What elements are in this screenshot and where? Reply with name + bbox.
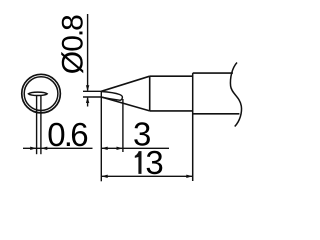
arrow Ø0.8 up <box>86 97 89 103</box>
tip top silhouette <box>101 76 149 91</box>
arrow Ø0.8 down <box>86 85 89 91</box>
cylinder2 bottom <box>193 113 240 115</box>
dimension line Ø0.8 vertical <box>87 14 89 91</box>
cylinder2 top <box>193 72 233 74</box>
arrow 0.6 right <box>41 147 47 150</box>
extension line Ø0.8 top <box>83 90 102 92</box>
arrow 13 left <box>101 175 107 178</box>
break curve <box>230 63 241 127</box>
cylinder1 top <box>150 75 193 77</box>
blade edge + extension line down to 13 dim <box>100 91 102 181</box>
front view chisel edge lens <box>28 92 47 95</box>
tip bottom silhouette <box>101 97 149 111</box>
front view inner circle <box>24 77 58 111</box>
svg-text:3: 3 <box>145 144 163 181</box>
slot edge / extension line left <box>36 96 38 155</box>
svg-text:Ø: Ø <box>56 51 89 74</box>
dimension line 0.6 <box>23 147 93 149</box>
slot edge / extension line right <box>40 96 42 155</box>
arrow 3 right <box>117 147 123 150</box>
extension line 3 right <box>122 99 124 152</box>
svg-text:6: 6 <box>70 116 88 153</box>
label 13: custom 1 glyph <box>135 151 142 174</box>
arrow 0.6 left <box>30 147 36 150</box>
dimension line 3 <box>101 147 169 149</box>
extension line Ø0.8 bottom <box>83 96 102 98</box>
front view outer circle <box>22 74 61 113</box>
dimension line 13 <box>101 175 192 177</box>
arrow 13 right <box>186 175 192 178</box>
svg-text:8: 8 <box>56 14 89 31</box>
cylinder1 bottom <box>150 110 193 112</box>
step + extension line <box>192 73 194 181</box>
ground face ellipse (side) <box>101 92 122 101</box>
cone-cylinder junction <box>149 76 151 111</box>
arrow 3 left <box>101 147 107 150</box>
